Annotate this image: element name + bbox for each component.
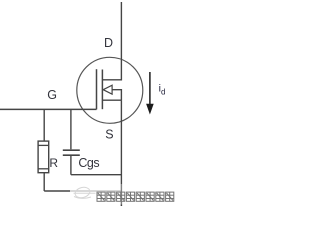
resistor R bbox=[38, 109, 49, 191]
transistor Q1 channel bbox=[101, 70, 103, 110]
wire: capacitor bottom rail bbox=[71, 174, 122, 176]
transistor Q1 body arrow bbox=[103, 85, 112, 94]
svg-text:d: d bbox=[161, 87, 165, 96]
wire: source vertical bbox=[120, 100, 122, 206]
svg-text:R: R bbox=[49, 156, 58, 170]
svg-text:S: S bbox=[105, 128, 113, 142]
watermark icon bbox=[74, 186, 96, 199]
transistor Q1 body circle bbox=[77, 57, 143, 123]
wire: resistor bottom rail bbox=[44, 190, 121, 192]
svg-text:D: D bbox=[104, 36, 113, 50]
watermark text 测试攻城狮的博客 bbox=[97, 192, 174, 201]
wire: drain vertical and drain lead bbox=[102, 2, 121, 80]
capacitor Cgs bbox=[63, 109, 80, 174]
svg-text:Cgs: Cgs bbox=[78, 156, 99, 170]
wire: source lead bbox=[102, 99, 121, 101]
wire: gate line bbox=[0, 108, 97, 110]
current arrow i_d bbox=[146, 72, 154, 115]
svg-text:G: G bbox=[47, 88, 57, 102]
wire: source vertical seen through watermark bbox=[120, 184, 122, 206]
watermark overlay bbox=[70, 184, 179, 206]
wire: body lead to source bbox=[112, 90, 121, 101]
transistor Q1 gate plate bbox=[96, 69, 98, 109]
